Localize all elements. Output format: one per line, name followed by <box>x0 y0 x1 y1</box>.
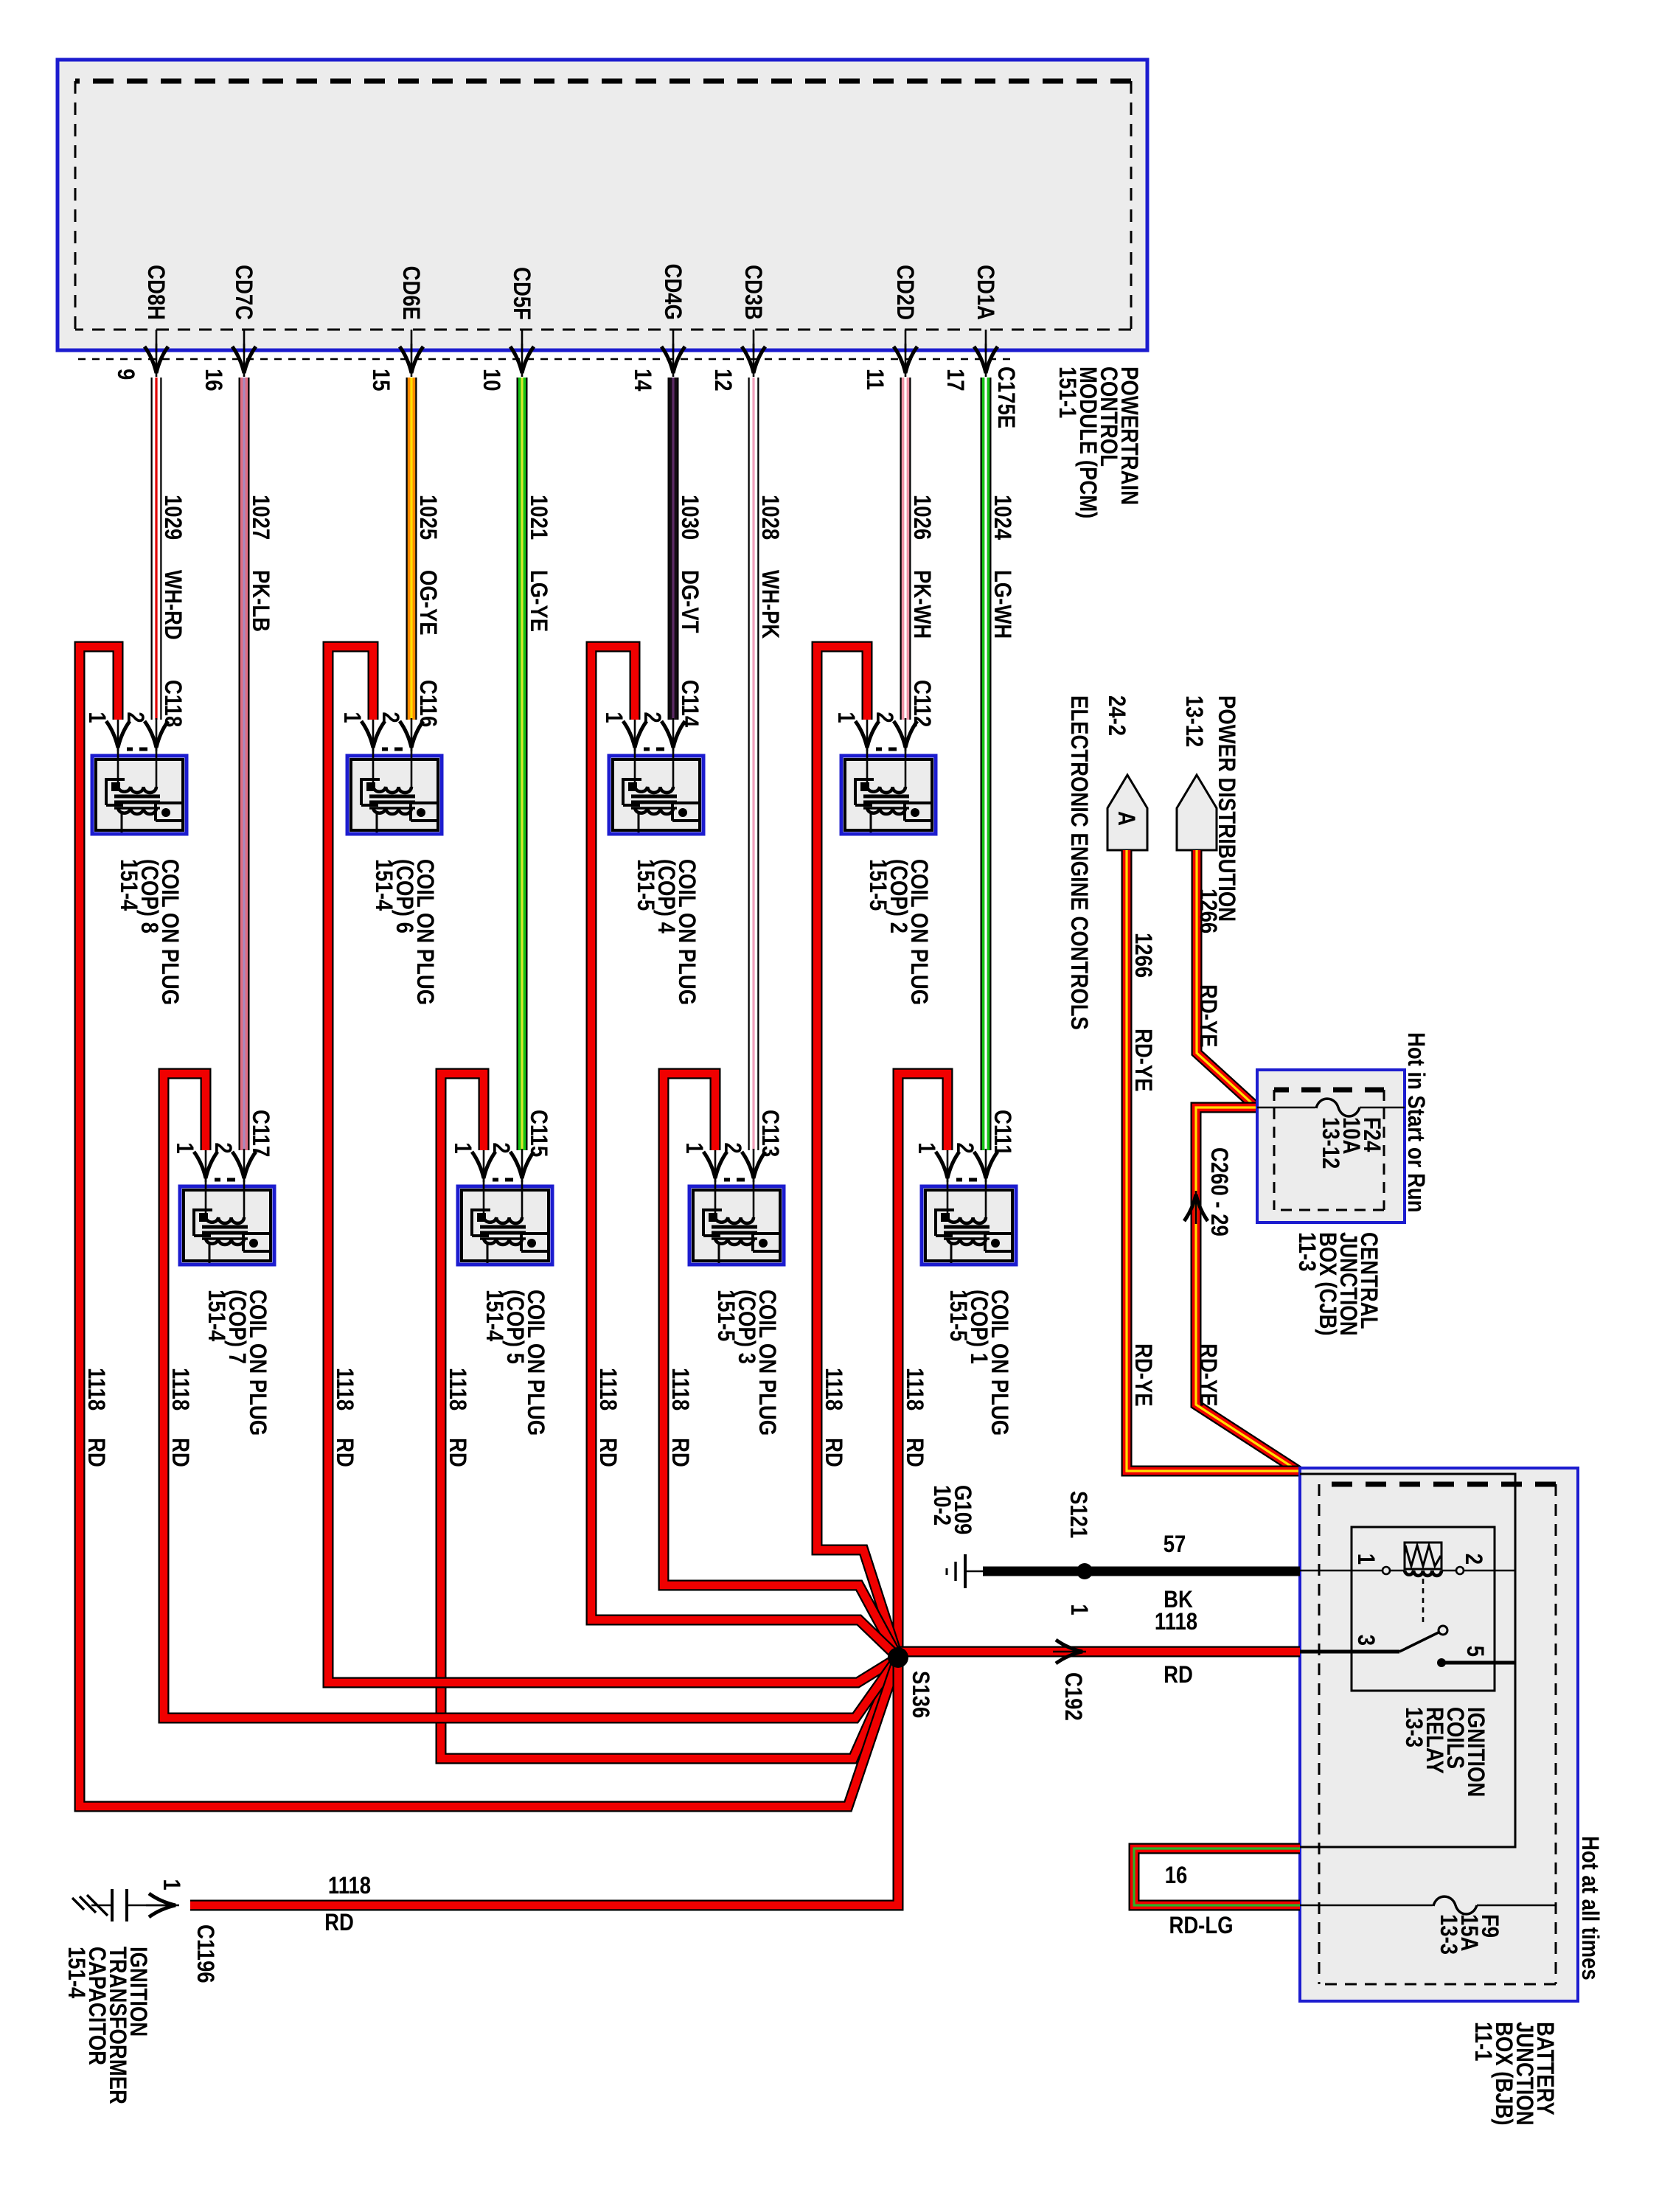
svg-text:1: 1 <box>1352 1554 1378 1565</box>
svg-text:151-5: 151-5 <box>945 1290 970 1341</box>
svg-text:CD1A: CD1A <box>972 265 998 320</box>
svg-text:1118: 1118 <box>167 1368 192 1411</box>
svg-text:C260 - 29: C260 - 29 <box>1206 1147 1231 1237</box>
svg-text:CD7C: CD7C <box>230 265 256 320</box>
svg-text:15: 15 <box>367 369 393 392</box>
svg-text:C116: C116 <box>414 680 440 727</box>
svg-text:151-4: 151-4 <box>203 1290 229 1342</box>
svg-text:S121: S121 <box>1065 1491 1091 1538</box>
svg-text:151-4: 151-4 <box>370 859 396 911</box>
svg-text:CD6E: CD6E <box>397 266 423 320</box>
svg-text:RD: RD <box>1164 1662 1193 1688</box>
svg-text:2: 2 <box>487 1142 513 1153</box>
svg-text:C118: C118 <box>159 680 185 727</box>
svg-text:Hot in Start or Run: Hot in Start or Run <box>1402 1032 1428 1212</box>
svg-text:PK-LB: PK-LB <box>247 570 273 632</box>
svg-text:1: 1 <box>1065 1604 1091 1615</box>
svg-text:2: 2 <box>377 712 403 723</box>
svg-text:RD: RD <box>820 1438 846 1467</box>
svg-text:2: 2 <box>1460 1554 1486 1565</box>
svg-text:2: 2 <box>951 1142 977 1153</box>
svg-text:C117: C117 <box>247 1110 273 1157</box>
svg-text:1: 1 <box>158 1879 184 1890</box>
svg-text:13-12: 13-12 <box>1180 695 1206 747</box>
svg-text:151-5: 151-5 <box>632 859 658 911</box>
svg-text:1029: 1029 <box>159 495 185 540</box>
svg-text:RD: RD <box>444 1438 470 1467</box>
svg-text:RD: RD <box>594 1438 620 1467</box>
svg-text:1118: 1118 <box>331 1368 357 1411</box>
svg-text:1021: 1021 <box>525 495 551 540</box>
svg-text:1: 1 <box>449 1142 475 1153</box>
svg-text:C175E: C175E <box>992 366 1018 428</box>
svg-text:OG-YE: OG-YE <box>414 570 440 636</box>
svg-text:ELECTRONIC ENGINE CONTROLS: ELECTRONIC ENGINE CONTROLS <box>1065 695 1091 1030</box>
svg-text:DG-VT: DG-VT <box>676 570 702 633</box>
svg-text:RD: RD <box>167 1438 192 1467</box>
svg-text:1118: 1118 <box>1155 1609 1197 1635</box>
svg-text:RD: RD <box>331 1438 357 1467</box>
svg-text:3: 3 <box>1352 1635 1378 1646</box>
svg-text:11-3: 11-3 <box>1293 1232 1319 1272</box>
svg-text:151-5: 151-5 <box>712 1290 738 1341</box>
svg-text:10-2: 10-2 <box>928 1485 954 1526</box>
svg-text:2: 2 <box>871 712 897 723</box>
svg-text:CD2D: CD2D <box>891 265 917 320</box>
svg-text:151-4: 151-4 <box>481 1290 507 1342</box>
svg-text:C192: C192 <box>1060 1672 1085 1721</box>
svg-text:10: 10 <box>478 369 504 392</box>
svg-text:RD: RD <box>901 1438 927 1467</box>
svg-text:POWER DISTRIBUTION: POWER DISTRIBUTION <box>1213 695 1239 922</box>
svg-text:WH-RD: WH-RD <box>159 570 185 640</box>
svg-text:151-1: 151-1 <box>1054 366 1079 418</box>
svg-text:1118: 1118 <box>594 1368 620 1411</box>
svg-text:C113: C113 <box>757 1110 782 1157</box>
svg-text:S136: S136 <box>907 1671 933 1718</box>
svg-text:2: 2 <box>719 1142 745 1153</box>
svg-text:1118: 1118 <box>901 1368 927 1411</box>
svg-text:CD4G: CD4G <box>659 264 685 320</box>
svg-text:C1196: C1196 <box>192 1924 218 1983</box>
svg-text:C114: C114 <box>676 680 702 728</box>
svg-text:1025: 1025 <box>414 495 440 540</box>
svg-text:RD-YE: RD-YE <box>1194 1343 1220 1407</box>
svg-text:Hot at all times: Hot at all times <box>1576 1836 1602 1980</box>
svg-text:16: 16 <box>1165 1863 1188 1888</box>
svg-text:RD: RD <box>324 1910 354 1935</box>
svg-text:RD-YE: RD-YE <box>1194 984 1220 1048</box>
svg-text:2: 2 <box>122 712 147 723</box>
svg-text:2: 2 <box>209 1142 235 1153</box>
svg-text:11-1: 11-1 <box>1470 2022 1495 2062</box>
svg-text:1118: 1118 <box>83 1368 108 1411</box>
svg-text:5: 5 <box>1461 1646 1487 1657</box>
svg-text:RD-YE: RD-YE <box>1130 1343 1155 1407</box>
svg-text:2: 2 <box>639 712 664 723</box>
svg-text:1118: 1118 <box>667 1368 692 1411</box>
svg-text:9: 9 <box>112 369 138 380</box>
svg-text:RD-LG: RD-LG <box>1169 1913 1233 1938</box>
svg-text:1027: 1027 <box>247 495 273 540</box>
svg-text:1266: 1266 <box>1194 888 1220 933</box>
svg-text:1026: 1026 <box>908 495 934 540</box>
svg-text:1266: 1266 <box>1130 933 1155 978</box>
svg-text:1118: 1118 <box>328 1873 371 1899</box>
svg-text:151-5: 151-5 <box>864 859 890 911</box>
svg-text:CD5F: CD5F <box>508 267 534 320</box>
svg-text:1: 1 <box>83 712 109 723</box>
svg-text:13-3: 13-3 <box>1400 1707 1426 1747</box>
svg-text:12: 12 <box>709 369 735 392</box>
svg-text:1028: 1028 <box>757 495 782 540</box>
svg-text:LG-WH: LG-WH <box>989 570 1015 639</box>
svg-text:1118: 1118 <box>820 1368 846 1411</box>
svg-text:1024: 1024 <box>989 495 1015 540</box>
svg-text:LG-YE: LG-YE <box>525 570 551 632</box>
svg-text:1030: 1030 <box>676 495 702 540</box>
svg-text:13-3: 13-3 <box>1435 1914 1461 1955</box>
svg-text:RD: RD <box>83 1438 108 1467</box>
svg-text:14: 14 <box>629 369 655 392</box>
svg-text:C115: C115 <box>525 1110 551 1157</box>
svg-text:1: 1 <box>913 1142 939 1153</box>
svg-text:RD-YE: RD-YE <box>1130 1029 1155 1092</box>
svg-text:PK-WH: PK-WH <box>908 570 934 639</box>
svg-text:11: 11 <box>861 369 887 390</box>
svg-text:57: 57 <box>1164 1531 1186 1557</box>
svg-text:A: A <box>1113 811 1138 826</box>
svg-text:151-4: 151-4 <box>115 859 141 911</box>
svg-text:1: 1 <box>832 712 858 723</box>
svg-text:C111: C111 <box>989 1110 1015 1156</box>
svg-text:CD3B: CD3B <box>740 265 765 320</box>
svg-text:1: 1 <box>600 712 626 723</box>
svg-text:1118: 1118 <box>444 1368 470 1411</box>
svg-text:C112: C112 <box>908 680 934 727</box>
svg-text:24-2: 24-2 <box>1103 695 1129 736</box>
svg-text:1: 1 <box>338 712 364 723</box>
svg-text:1: 1 <box>171 1142 197 1153</box>
svg-text:13-12: 13-12 <box>1317 1117 1343 1169</box>
svg-text:WH-PK: WH-PK <box>757 570 782 639</box>
svg-text:16: 16 <box>200 369 226 392</box>
svg-text:151-4: 151-4 <box>63 1947 88 1999</box>
svg-text:RD: RD <box>667 1438 692 1467</box>
svg-text:1: 1 <box>681 1142 706 1153</box>
svg-text:CD8H: CD8H <box>142 265 168 320</box>
svg-text:17: 17 <box>942 369 967 392</box>
